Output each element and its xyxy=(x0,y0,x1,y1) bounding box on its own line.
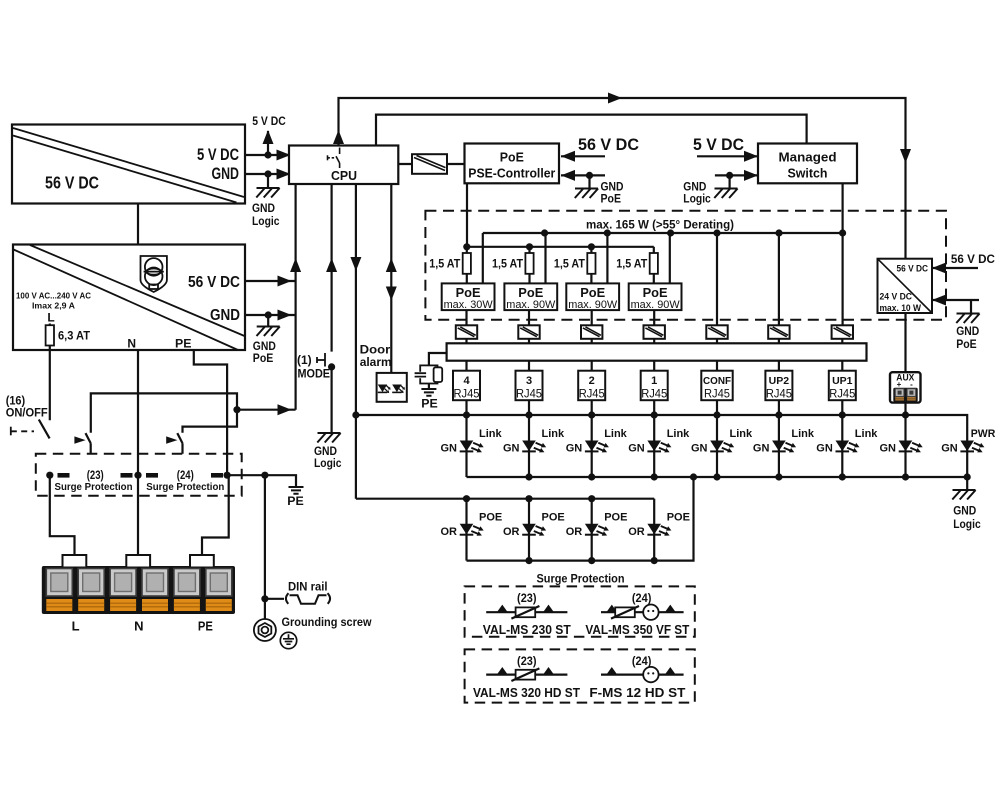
svg-text:L: L xyxy=(47,311,54,325)
wire AUX to LED bus xyxy=(904,403,906,415)
wire RJ45 2 to LED bus xyxy=(591,400,593,415)
wire fuse rail (56V to ports) xyxy=(463,243,654,250)
wire PoE 1 to transformer xyxy=(465,310,467,325)
switch MODE xyxy=(317,353,325,367)
switch ON/OFF (16) xyxy=(6,396,50,439)
wire PSU2 GND output into w1 xyxy=(245,310,296,321)
svg-text:Grounding screw: Grounding screw xyxy=(282,617,372,629)
RJ45 port 3 xyxy=(516,371,543,401)
wire CPU MODE line (w2) xyxy=(326,184,337,352)
wire RJ45 CONF to LED bus xyxy=(716,400,718,415)
PoE port controller 3 (PoE max. 90W) xyxy=(566,283,619,311)
svg-text:+: + xyxy=(897,380,902,389)
LED POE 2 (OR) xyxy=(566,499,628,561)
svg-text:PoE: PoE xyxy=(253,353,274,365)
wire bus to RJ45 CONF xyxy=(716,361,718,371)
wire LED bus to POE LED row xyxy=(356,495,654,502)
RJ45 port 2 xyxy=(578,371,605,401)
wire N line xyxy=(137,350,139,556)
terminal clamp tab L xyxy=(63,555,87,568)
wire bus to RJ45 2 xyxy=(591,361,593,371)
svg-text:4: 4 xyxy=(463,375,470,387)
ground GND Logic below MODE xyxy=(314,433,342,470)
wire PE to terminal xyxy=(202,475,229,556)
power supply PSU1 box xyxy=(12,125,245,204)
wire RJ45 4 to LED bus xyxy=(465,400,467,415)
svg-text:Surge Protection: Surge Protection xyxy=(146,481,224,493)
wire relay contacts top rail xyxy=(91,393,237,432)
svg-text:Managed: Managed xyxy=(779,151,837,165)
svg-text:GND: GND xyxy=(253,341,276,353)
svg-text:UP1: UP1 xyxy=(832,375,853,387)
LED cathode bus (bottom) xyxy=(467,473,971,480)
wire CPU to LED bus (w3) xyxy=(350,184,361,499)
isolation transformer TUP1 xyxy=(832,325,853,339)
varistor plug contact PE xyxy=(211,473,223,478)
RJ45 port CONF xyxy=(701,371,732,401)
svg-text:(24): (24) xyxy=(177,470,194,482)
relay contact K2 xyxy=(166,433,182,454)
wire CPU top to 56V feed (top rail) xyxy=(333,93,911,259)
svg-text:PWR: PWR xyxy=(971,428,996,440)
svg-text:RJ45: RJ45 xyxy=(704,387,730,401)
svg-text:RJ45: RJ45 xyxy=(579,387,605,401)
svg-text:(24): (24) xyxy=(632,656,652,668)
PoE port controller 1 (PoE max. 30W) xyxy=(442,283,495,311)
wire PE rail to earth xyxy=(227,472,296,486)
wire bus to RJ45 UP1 xyxy=(841,361,843,371)
svg-text:L: L xyxy=(72,619,80,634)
isolation transformer T1 xyxy=(644,325,665,339)
svg-text:GN: GN xyxy=(753,443,770,455)
svg-text:5 V DC: 5 V DC xyxy=(197,145,239,164)
wire PoE 4 to transformer xyxy=(653,310,655,325)
node 5 V DC rail stub xyxy=(252,114,286,155)
svg-text:PoE: PoE xyxy=(500,151,524,165)
ground GND PoE below converter xyxy=(956,314,979,352)
svg-text:GND: GND xyxy=(601,182,624,194)
wire transformer TUP1 to line bus xyxy=(841,339,843,344)
svg-text:-: - xyxy=(910,380,913,389)
svg-text:Switch: Switch xyxy=(788,167,828,181)
svg-text:56 V DC: 56 V DC xyxy=(578,135,639,154)
svg-text:max. 165 W (>55° Derating): max. 165 W (>55° Derating) xyxy=(586,218,734,232)
wire PSU1 5V output to CPU xyxy=(245,150,295,161)
label 56 V DC into converter xyxy=(932,252,995,274)
LED PWR (GN) xyxy=(941,428,995,455)
wire PSU1 GND output to CPU xyxy=(245,169,295,180)
wire transformer T1 to line bus xyxy=(653,339,655,344)
isolation transformer T4 xyxy=(456,325,477,339)
svg-text:max. 90W: max. 90W xyxy=(631,299,681,311)
ground GND Logic at LED bus xyxy=(952,477,981,531)
isolation transformer T2 xyxy=(581,325,602,339)
svg-text:24 V DC: 24 V DC xyxy=(880,292,913,303)
snubber RC network to PE xyxy=(415,365,443,383)
wire bus to RJ45 UP2 xyxy=(778,361,780,371)
wire converter to AUX connector xyxy=(904,313,906,372)
svg-text:F-MS 12 HD ST: F-MS 12 HD ST xyxy=(589,685,685,700)
LED Link 2 (GN) xyxy=(566,415,628,477)
wire GND Logic into Managed Switch xyxy=(683,170,758,206)
wire PSE controller to fuse rail xyxy=(466,183,468,247)
ground earth PE below snubber xyxy=(421,384,438,411)
wire data rail drop to PoE 3 xyxy=(606,233,608,283)
wire RJ45 UP2 to LED bus xyxy=(778,400,780,415)
power supply PSU2 box (AC/DC) xyxy=(13,245,245,351)
svg-text:max. 90W: max. 90W xyxy=(568,299,618,311)
svg-text:PSE-Controller: PSE-Controller xyxy=(468,167,555,181)
svg-text:alarm: alarm xyxy=(360,355,392,369)
ground GND Logic at PSU1 output xyxy=(252,174,280,228)
Door alarm optocoupler box xyxy=(377,373,407,402)
ground earth PE right of surge box xyxy=(287,487,304,508)
plug/socket icon in PSU2 xyxy=(141,256,167,292)
svg-text:GND: GND xyxy=(314,446,337,458)
svg-text:POE: POE xyxy=(479,512,502,524)
wire RJ45 UP1 to LED bus xyxy=(841,400,843,415)
label 56 V DC into PSE xyxy=(561,135,639,162)
svg-text:max. 10 W: max. 10 W xyxy=(880,303,922,314)
PoE port controller 4 (PoE max. 90W) xyxy=(629,283,682,311)
surge protection dashed box xyxy=(36,454,242,496)
svg-text:1: 1 xyxy=(651,375,657,387)
svg-text:POE: POE xyxy=(604,512,627,524)
svg-text:MODE: MODE xyxy=(298,367,331,381)
varistor+GDT VAL-MS 350 VF ST (24) xyxy=(585,593,689,637)
Managed Switch box xyxy=(758,144,857,184)
isolation transformer T3 xyxy=(518,325,539,339)
wire L to terminal xyxy=(50,475,75,556)
pin label L with fuse 6,3 AT xyxy=(46,311,90,421)
RJ45 port 1 xyxy=(641,371,668,401)
wire PoE 3 to transformer xyxy=(591,310,593,325)
svg-text:GN: GN xyxy=(880,443,897,455)
svg-text:Link: Link xyxy=(604,428,627,440)
relay contact K1 xyxy=(74,433,90,454)
PoE power dashed box xyxy=(425,211,946,320)
svg-text:PE: PE xyxy=(198,619,213,634)
LED POE 3 (OR) xyxy=(503,499,565,561)
wire data rail drop to PoE 4 xyxy=(669,233,671,283)
svg-text:Surge Protection: Surge Protection xyxy=(55,481,133,493)
isolation transformer TCONF xyxy=(706,325,727,339)
svg-text:1,5 AT: 1,5 AT xyxy=(492,259,523,271)
fuse F1 1,5 AT xyxy=(429,247,471,284)
svg-text:(23): (23) xyxy=(87,470,104,482)
svg-text:GND: GND xyxy=(252,203,275,215)
fuse F4 1,5 AT xyxy=(616,247,658,284)
wire GND PoE into PSE xyxy=(561,170,624,206)
svg-text:100 V AC...240 V AC: 100 V AC...240 V AC xyxy=(16,291,91,301)
svg-text:RJ45: RJ45 xyxy=(516,387,542,401)
wire CPU top to Managed Switch xyxy=(376,115,807,146)
svg-text:GN: GN xyxy=(628,443,645,455)
svg-text:OR: OR xyxy=(628,526,645,538)
node PE surge tap xyxy=(224,472,231,479)
svg-text:VAL-MS 350 VF ST: VAL-MS 350 VF ST xyxy=(585,622,689,637)
varistor plug contact N-right xyxy=(146,473,158,478)
svg-text:56 V DC: 56 V DC xyxy=(897,264,929,275)
label Door alarm xyxy=(360,343,392,370)
svg-text:VAL-MS 230 ST: VAL-MS 230 ST xyxy=(483,622,571,637)
fuse F3 1,5 AT xyxy=(554,247,596,284)
svg-text:(16): (16) xyxy=(6,396,26,408)
terminal block body xyxy=(42,566,235,614)
PoE port controller 2 (PoE max. 90W) xyxy=(504,283,557,311)
DC/DC converter 56V to 24V xyxy=(878,259,933,314)
svg-text:GN: GN xyxy=(503,443,520,455)
ground GND PoE at PSU2 output xyxy=(253,315,280,365)
svg-text:Link: Link xyxy=(730,428,753,440)
surge legend dashed box 2 xyxy=(465,649,695,702)
wire transformer T2 to line bus xyxy=(591,339,593,344)
svg-text:3: 3 xyxy=(526,375,532,387)
svg-text:CPU: CPU xyxy=(331,168,357,183)
wire transformer TCONF to line bus xyxy=(716,339,718,344)
surge legend dashed box 1 xyxy=(465,586,695,636)
svg-text:PoE: PoE xyxy=(456,285,481,300)
node N surge tap xyxy=(134,472,141,479)
terminal block cells (6 screw terminals) xyxy=(46,569,232,612)
svg-text:6,3 AT: 6,3 AT xyxy=(58,331,90,343)
svg-text:OR: OR xyxy=(441,526,458,538)
svg-text:GND: GND xyxy=(683,182,706,194)
svg-text:(1): (1) xyxy=(297,353,312,367)
wire GND PoE into converter xyxy=(932,295,979,314)
RJ45 port UP2 xyxy=(765,371,792,401)
svg-text:1,5 AT: 1,5 AT xyxy=(429,259,460,271)
wire bus to RJ45 4 xyxy=(465,361,467,371)
svg-text:POE: POE xyxy=(542,512,565,524)
svg-text:PoE: PoE xyxy=(601,194,622,206)
LED anode bus (top) xyxy=(352,411,967,477)
svg-text:GND: GND xyxy=(210,307,240,324)
node MODE junction xyxy=(328,363,335,433)
svg-text:RJ45: RJ45 xyxy=(829,387,855,401)
label (23) Surge Protection xyxy=(55,470,133,493)
svg-text:Surge Protection: Surge Protection xyxy=(537,574,625,586)
wire PE line xyxy=(194,350,227,475)
wire CPU to Door alarm (w4) xyxy=(386,184,397,373)
POE LED cathode bus xyxy=(467,477,694,564)
varistor plug contact N-left xyxy=(121,473,133,478)
svg-text:max. 30W: max. 30W xyxy=(444,299,494,311)
label (1) MODE xyxy=(297,353,330,381)
svg-text:1,5 AT: 1,5 AT xyxy=(554,259,585,271)
svg-text:PoE: PoE xyxy=(956,339,977,351)
fuse F2 1,5 AT xyxy=(492,247,534,284)
LED Link CONF (GN) xyxy=(691,415,753,477)
svg-text:56 V DC: 56 V DC xyxy=(188,274,240,291)
svg-text:GN: GN xyxy=(816,443,833,455)
wire RJ45 1 to LED bus xyxy=(653,400,655,415)
svg-text:1,5 AT: 1,5 AT xyxy=(616,259,647,271)
svg-text:DIN rail: DIN rail xyxy=(288,582,328,594)
wire bus to RJ45 1 xyxy=(653,361,655,371)
wire data rail from Managed Switch xyxy=(483,229,843,236)
CPU box xyxy=(289,146,398,185)
wire transformer TUP2 to line bus xyxy=(778,339,780,344)
wire UP2 transformer to data rail xyxy=(778,233,780,325)
wire Managed Switch to UP1 port xyxy=(839,183,846,325)
svg-text:GN: GN xyxy=(691,443,708,455)
svg-text:Logic: Logic xyxy=(953,519,981,531)
terminal clamp tab PE xyxy=(190,555,214,568)
LED Link UP1 (GN) xyxy=(816,415,878,477)
svg-text:(24): (24) xyxy=(632,593,652,605)
isolation coupler U2 xyxy=(398,154,464,174)
svg-text:CONF: CONF xyxy=(703,375,732,387)
wire earth to grounding screw xyxy=(261,475,268,618)
svg-text:5 V DC: 5 V DC xyxy=(252,114,286,128)
PoE PSE-Controller box xyxy=(465,144,560,184)
node L surge tap xyxy=(46,472,53,479)
svg-text:Link: Link xyxy=(667,428,690,440)
svg-text:OR: OR xyxy=(566,526,583,538)
varistor plug contact L xyxy=(58,473,70,478)
label 5 V DC into Managed Switch xyxy=(693,135,758,162)
reset switch icon in CPU xyxy=(328,148,340,169)
svg-text:POE: POE xyxy=(667,512,690,524)
svg-text:Link: Link xyxy=(479,428,502,440)
svg-text:5 V DC: 5 V DC xyxy=(693,135,744,154)
RJ45 port 4 xyxy=(453,371,480,401)
svg-text:RJ45: RJ45 xyxy=(766,387,792,401)
svg-text:(23): (23) xyxy=(517,656,537,668)
wire PSU1 to PSU2 link xyxy=(137,204,139,245)
isolation transformer TUP2 xyxy=(768,325,789,339)
svg-text:2: 2 xyxy=(589,375,595,387)
wire bus to RJ45 3 xyxy=(528,361,530,371)
wire data rail drop to PoE 1 xyxy=(482,233,484,283)
GDT F-MS 12 HD ST (24) xyxy=(589,656,685,700)
varistor VAL-MS 320 HD ST (23) xyxy=(473,656,580,700)
wire PoE 2 to transformer xyxy=(528,310,530,325)
svg-text:Logic: Logic xyxy=(252,216,280,228)
svg-text:PE: PE xyxy=(175,337,192,351)
svg-text:56 V DC: 56 V DC xyxy=(45,173,99,193)
LED aux (GN) xyxy=(880,415,923,477)
svg-text:RJ45: RJ45 xyxy=(641,387,667,401)
svg-text:Link: Link xyxy=(542,428,565,440)
label (24) Surge Protection xyxy=(146,470,224,493)
svg-text:GND: GND xyxy=(953,506,976,518)
DIN rail symbol xyxy=(265,582,330,604)
protective earth icon xyxy=(280,632,296,648)
wire CONF transformer to data rail xyxy=(716,233,718,325)
svg-text:Link: Link xyxy=(791,428,814,440)
node power-good junction xyxy=(233,404,295,415)
wire transformer T4 to line bus xyxy=(465,339,467,344)
LED Link 3 (GN) xyxy=(503,415,565,477)
svg-text:PoE: PoE xyxy=(643,285,668,300)
terminal clamp tab N xyxy=(126,555,150,568)
LED Link 1 (GN) xyxy=(628,415,690,477)
svg-text:N: N xyxy=(127,337,136,351)
svg-text:PoE: PoE xyxy=(518,285,543,300)
svg-text:PoE: PoE xyxy=(580,285,605,300)
svg-text:Logic: Logic xyxy=(314,458,342,470)
svg-text:max. 90W: max. 90W xyxy=(506,299,556,311)
svg-text:PE: PE xyxy=(421,397,438,411)
svg-text:Logic: Logic xyxy=(683,194,711,206)
svg-text:GN: GN xyxy=(941,443,958,455)
varistor VAL-MS 230 ST (23) xyxy=(483,593,571,637)
LED POE 1 (OR) xyxy=(628,499,690,561)
svg-text:GND: GND xyxy=(956,326,979,338)
svg-text:VAL-MS 320 HD ST: VAL-MS 320 HD ST xyxy=(473,685,580,700)
RJ45 port UP1 xyxy=(829,371,856,401)
wire CPU to power-good node (w1) xyxy=(290,184,301,410)
svg-text:GN: GN xyxy=(441,443,458,455)
svg-text:UP2: UP2 xyxy=(769,375,790,387)
wire data rail drop to PoE 2 xyxy=(544,233,546,283)
LED Link 4 (GN) xyxy=(441,415,503,477)
wire RJ45 3 to LED bus xyxy=(528,400,530,415)
AUX connector xyxy=(890,372,921,402)
RJ45 line interface bus bar xyxy=(447,343,867,360)
svg-text:GN: GN xyxy=(566,443,583,455)
svg-text:Imax 2,9 A: Imax 2,9 A xyxy=(32,301,75,311)
svg-text:N: N xyxy=(134,619,143,634)
svg-text:(23): (23) xyxy=(517,593,537,605)
svg-text:PE: PE xyxy=(287,494,304,508)
wire transformer T3 to line bus xyxy=(528,339,530,344)
LED POE 4 (OR) xyxy=(441,499,503,561)
svg-text:56 V DC: 56 V DC xyxy=(951,252,995,266)
LED Link UP2 (GN) xyxy=(753,415,815,477)
grounding screw icon xyxy=(254,619,276,641)
svg-text:OR: OR xyxy=(503,526,520,538)
svg-text:Link: Link xyxy=(855,428,878,440)
wire PSU2 56V output into w1 xyxy=(245,276,296,287)
svg-text:RJ45: RJ45 xyxy=(454,387,480,401)
svg-text:GND: GND xyxy=(212,164,240,183)
svg-text:ON/OFF: ON/OFF xyxy=(6,408,48,420)
wire bus to PE snubber xyxy=(429,353,447,365)
